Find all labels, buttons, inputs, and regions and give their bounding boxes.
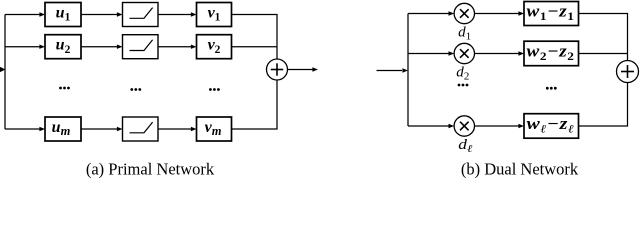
svg-text:(b) Dual Network: (b) Dual Network (461, 160, 579, 179)
svg-text:wℓ−zℓ: wℓ−zℓ (527, 114, 575, 135)
svg-text:(a) Primal Network: (a) Primal Network (86, 160, 215, 179)
